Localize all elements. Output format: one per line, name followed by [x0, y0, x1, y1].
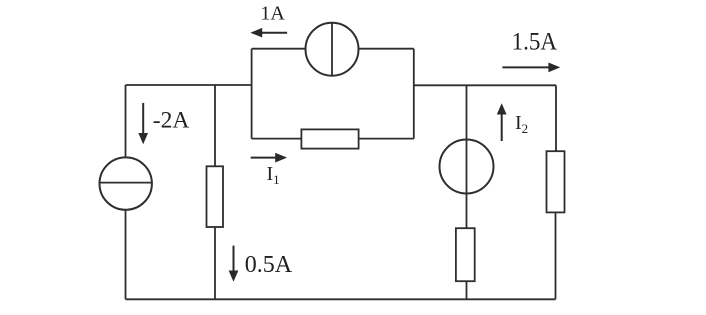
- wire left branch upper: [125, 85, 127, 158]
- wire far-right lower: [555, 212, 557, 299]
- arrow 0.5A (down): [229, 246, 237, 281]
- wire branch2 lower: [214, 227, 216, 299]
- svg-text:-2A: -2A: [153, 108, 190, 134]
- wire loop bottom right: [359, 138, 414, 140]
- arrow 1.5A (right): [502, 63, 559, 71]
- arrow -2A (down): [139, 103, 147, 143]
- wire loop top left: [252, 48, 306, 50]
- arrow I2 (up): [498, 105, 506, 142]
- arrow 1A (left): [252, 29, 287, 37]
- resistor R-right (vertical): [547, 151, 565, 212]
- wire branch2 upper: [214, 85, 216, 166]
- resistor R-left (vertical): [207, 166, 224, 227]
- current source mid-right (circle on wire): [440, 140, 494, 194]
- wire mid-right lower: [466, 281, 468, 299]
- resistor R-loop (horizontal): [301, 129, 358, 148]
- current source top (circle, vertical bar): [306, 23, 359, 76]
- resistor R-mid-right (vertical): [456, 228, 475, 281]
- arrow I1 (right): [251, 154, 286, 162]
- wire bottom rail: [126, 298, 556, 300]
- svg-text:1A: 1A: [260, 3, 285, 25]
- wire left branch lower: [125, 210, 127, 299]
- wire loop right vertical: [413, 49, 415, 139]
- wire loop left vertical: [251, 49, 253, 139]
- wire loop bottom left: [252, 138, 302, 140]
- svg-text:1.5A: 1.5A: [512, 29, 557, 56]
- current source left (circle, horizontal bar): [100, 157, 152, 209]
- wire top-left horizontal: [126, 84, 252, 86]
- svg-text:0.5A: 0.5A: [245, 252, 293, 278]
- wire loop top right: [359, 48, 414, 50]
- wire mid-right vertical through source: [466, 85, 468, 228]
- wire far-right upper: [555, 85, 557, 151]
- wire top-right horizontal: [414, 84, 556, 86]
